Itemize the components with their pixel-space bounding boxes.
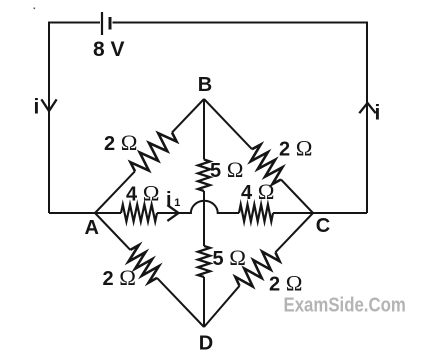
- svg-text:C: C: [316, 215, 330, 237]
- svg-text:8 V: 8 V: [93, 38, 125, 61]
- svg-text:i: i: [166, 189, 172, 211]
- svg-text:B: B: [198, 74, 212, 96]
- svg-text:5 Ω: 5 Ω: [213, 245, 246, 270]
- svg-text:4 Ω: 4 Ω: [241, 179, 274, 204]
- svg-text:D: D: [199, 333, 213, 353]
- svg-text:ExamSide.Com: ExamSide.Com: [284, 293, 406, 316]
- svg-text:4 Ω: 4 Ω: [126, 181, 159, 206]
- svg-text:2 Ω: 2 Ω: [104, 130, 137, 155]
- svg-text:i: i: [34, 96, 40, 119]
- svg-text:5 Ω: 5 Ω: [210, 157, 243, 182]
- svg-text:2 Ω: 2 Ω: [103, 265, 136, 290]
- svg-text:1: 1: [174, 197, 180, 209]
- svg-text:A: A: [85, 217, 99, 239]
- svg-text:2 Ω: 2 Ω: [269, 271, 302, 296]
- svg-text:i: i: [375, 102, 381, 125]
- svg-text:2 Ω: 2 Ω: [279, 136, 312, 161]
